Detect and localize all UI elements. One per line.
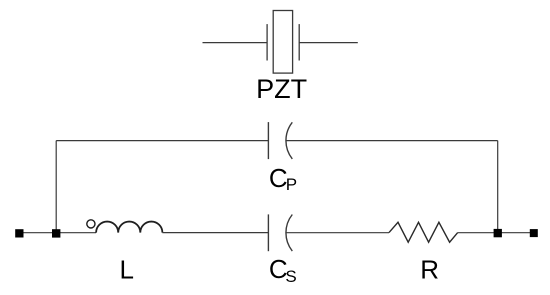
terminal square left	[15, 229, 23, 237]
resistor R zigzag	[389, 222, 458, 242]
svg-text:P: P	[286, 175, 297, 194]
terminal square right	[530, 229, 538, 237]
svg-text:L: L	[120, 254, 134, 284]
wire L to CS	[162, 232, 268, 234]
svg-text:S: S	[285, 267, 296, 286]
capacitor CS right curved plate	[286, 215, 292, 252]
svg-text:R: R	[420, 255, 439, 285]
wire R to right junction	[458, 232, 534, 234]
capacitor CP right curved plate	[286, 122, 292, 159]
capacitor CS left plate	[267, 214, 269, 251]
wire CS to R	[286, 232, 389, 234]
wire bottom rail left	[19, 232, 96, 234]
svg-text:PZT: PZT	[256, 74, 307, 104]
crystal X1 body rectangle	[273, 11, 292, 74]
junction node square right	[494, 229, 502, 237]
wire left vertical riser	[55, 141, 57, 230]
crystal X1 right plate	[298, 24, 300, 60]
inductor L winding	[96, 222, 162, 233]
wire top branch right	[286, 140, 498, 142]
inductor L polarity dot circle	[87, 220, 95, 228]
wire top branch left	[56, 140, 268, 142]
junction node square left	[52, 229, 60, 237]
crystal X1 left plate	[266, 24, 268, 60]
capacitor CP left plate	[267, 122, 269, 159]
wire right vertical riser	[497, 141, 499, 230]
crystal X1 right lead wire	[299, 42, 358, 44]
crystal X1 left lead wire	[203, 42, 268, 44]
